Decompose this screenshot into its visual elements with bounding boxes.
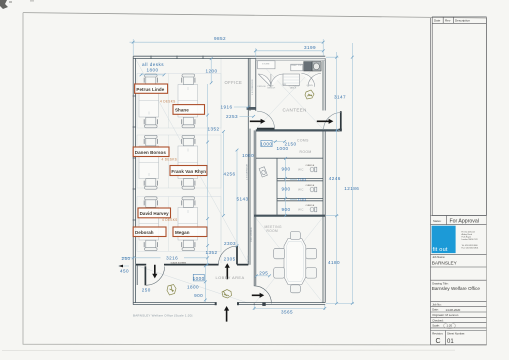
fit out logo [432, 226, 456, 253]
lobby door arc [219, 246, 238, 265]
dim 3199 canteen [254, 45, 325, 58]
svg-text:12186: 12186 [344, 186, 359, 191]
svg-text:Revision:: Revision: [432, 331, 443, 335]
svg-text:CUBICLE: CUBICLE [306, 205, 315, 207]
lobby vertical dim line [204, 266, 206, 303]
svg-text:WC: WC [298, 168, 304, 172]
kitchen counter band [256, 58, 325, 89]
svg-text:David Harvey: David Harvey [140, 211, 170, 216]
svg-text:LOBBY AREA: LOBBY AREA [216, 275, 245, 280]
svg-text:Drawing Title:: Drawing Title: [432, 281, 449, 285]
svg-text:Date:: Date: [432, 308, 439, 312]
cubicle partition left wall [276, 158, 278, 216]
svg-text:4 DESKS: 4 DESKS [162, 158, 178, 162]
glass screen door arc [146, 267, 165, 286]
dim 1200 [205, 57, 217, 84]
svg-text:295: 295 [259, 270, 268, 275]
WC block bottom wall [254, 215, 325, 217]
desk cluster 2 [139, 146, 198, 179]
name label Danen Borsos [133, 147, 169, 157]
svg-text:1800: 1800 [187, 284, 199, 289]
svg-text:4180: 4180 [328, 260, 340, 265]
window ticks on left wall [133, 96, 136, 220]
info rows [431, 301, 487, 328]
svg-text:Job No:: Job No: [432, 302, 442, 306]
svg-text:4 DESKS: 4 DESKS [160, 100, 176, 104]
svg-text:Originator:: Originator: [432, 313, 445, 317]
svg-text:SCREEN: SCREEN [248, 254, 250, 264]
svg-text:Megan: Megan [175, 230, 190, 235]
svg-text:1200: 1200 [205, 68, 217, 73]
svg-text:1352: 1352 [205, 250, 217, 255]
office desk row zone lines [137, 58, 221, 263]
svg-text:GLASS SCREEN: GLASS SCREEN [171, 261, 187, 264]
glass screen wall [136, 264, 248, 266]
name label Frank Van Rhyn [170, 166, 207, 176]
svg-text:900: 900 [194, 293, 203, 298]
svg-text:Fax: 020 8453 0801: Fax: 020 8453 0801 [462, 247, 479, 249]
svg-text:1000: 1000 [193, 276, 205, 281]
glass screen door leaf [144, 266, 146, 285]
svg-text:9852: 9852 [214, 36, 226, 41]
svg-text:fit out: fit out [433, 247, 448, 253]
bottom wall (entrance gap 216.5-237) [133, 303, 325, 305]
meeting room door leaf+arc [254, 286, 272, 304]
overall right dim 12186 [344, 43, 359, 305]
svg-text:WC: WC [298, 188, 304, 192]
svg-text:ROOM: ROOM [300, 150, 312, 154]
revision table [432, 17, 486, 216]
basin doodle left of cubicles [259, 167, 267, 177]
svg-text:1.0 CORRIDOR: 1.0 CORRIDOR [252, 79, 254, 95]
svg-text:14-08-2020: 14-08-2020 [446, 308, 461, 312]
drawing title section [431, 279, 487, 281]
svg-text:Shane: Shane [175, 108, 189, 113]
svg-text:Deborah: Deborah [135, 230, 154, 235]
svg-text:FRIDGE: FRIDGE [258, 86, 267, 88]
svg-text:ROOM: ROOM [267, 229, 279, 233]
canteen right wall [323, 58, 325, 110]
svg-text:BARNSLEY Welfare Office [Scale: BARNSLEY Welfare Office [Scale 1:20] [133, 314, 193, 318]
svg-text:1800: 1800 [146, 68, 158, 73]
job name row [431, 253, 487, 255]
svg-text:1352: 1352 [207, 126, 219, 131]
svg-text:100: 100 [297, 197, 306, 202]
corridor top cap wall [247, 107, 256, 110]
canteen left wall [255, 58, 257, 111]
cubicle divider 2 [277, 198, 323, 200]
WC labels and toilets [298, 165, 317, 172]
svg-text:C: C [436, 338, 441, 345]
scan corner artifact [0, 0, 34, 9]
dim 3216 [132, 256, 209, 261]
svg-text:1000: 1000 [260, 142, 272, 147]
svg-text:L.G CORRIDOR: L.G CORRIDOR [247, 164, 249, 180]
logo address [462, 230, 479, 249]
cubicle divider 1 [277, 178, 323, 180]
svg-text:CUBICLE: CUBICLE [306, 185, 315, 187]
svg-text:2305: 2305 [224, 257, 236, 262]
svg-text:3147: 3147 [334, 95, 346, 100]
svg-text:900: 900 [281, 187, 290, 192]
revision / sheet number [431, 331, 487, 345]
cooker/sink dark unit [304, 62, 312, 71]
svg-text:4 DESKS: 4 DESKS [162, 218, 178, 222]
svg-text:100: 100 [297, 177, 306, 182]
right wall WC block + meeting room [323, 130, 325, 302]
canteen right door [340, 111, 342, 130]
svg-text:Sheet Number:: Sheet Number: [447, 331, 465, 335]
svg-text:OVEN: OVEN [307, 85, 314, 87]
svg-text:London NW10 7XX: London NW10 7XX [462, 239, 479, 241]
shelving steps [283, 74, 300, 86]
window mullion ticks on top wall [151, 56, 203, 59]
svg-text:1060 SCREEN: 1060 SCREEN [251, 227, 253, 242]
dim 1916 [220, 105, 249, 110]
WC vertical dim line [285, 158, 287, 215]
desk cluster 3 [139, 208, 198, 241]
svg-text:Status:: Status: [433, 219, 442, 223]
svg-text:1000: 1000 [276, 146, 288, 151]
svg-text:CANTEEN: CANTEEN [283, 108, 307, 113]
name label Petrus Linde [135, 84, 168, 93]
svg-text:4256: 4256 [223, 171, 235, 176]
svg-text:01: 01 [447, 339, 454, 345]
svg-text:Job Name:: Job Name: [432, 255, 445, 259]
svg-text:BIN: BIN [283, 84, 287, 86]
svg-text:Frank Van Rhyn: Frank Van Rhyn [171, 169, 206, 174]
svg-text:Scale:: Scale: [432, 324, 440, 328]
office plant doodle [167, 285, 176, 296]
cubicle top line [256, 157, 323, 159]
svg-text:900: 900 [281, 207, 290, 212]
canteen plant doodle [305, 90, 314, 99]
svg-text:2303: 2303 [224, 241, 236, 246]
svg-text:BARNSLEY: BARNSLEY [432, 260, 458, 265]
svg-text:5143: 5143 [236, 196, 248, 201]
short screen return line [136, 266, 138, 285]
svg-text:Checked:: Checked: [432, 318, 444, 322]
entrance up arrow (outside) [224, 306, 229, 322]
meeting table [284, 239, 306, 285]
svg-text:CUBICLE: CUBICLE [306, 165, 315, 167]
lobby up arrow [225, 263, 230, 279]
lobby door leaf (office door) [236, 246, 238, 264]
svg-text:TABLE: TABLE [290, 87, 297, 90]
dim 2253 [226, 114, 255, 119]
name label Deborah [133, 227, 166, 237]
svg-text:3199: 3199 [304, 45, 316, 50]
dim 295 meeting [255, 270, 271, 277]
status row [431, 216, 487, 225]
WC/meeting left wall [254, 130, 256, 304]
right dim chain 3147/4246/4180 [326, 52, 354, 305]
svg-text:Danen Borsos: Danen Borsos [135, 150, 167, 155]
svg-text:WC: WC [298, 208, 304, 212]
title block outline [430, 18, 432, 345]
svg-text:OFFICE: OFFICE [225, 80, 243, 85]
faint construction diagonals [135, 58, 323, 303]
office right wall [248, 58, 250, 264]
fridge cabinet door arcs [258, 74, 271, 87]
office desks: 3 clusters of 4 desks [139, 74, 198, 251]
svg-text:all desks: all desks [142, 62, 164, 67]
svg-text:M Lennon: M Lennon [446, 313, 459, 317]
prep top units [291, 64, 303, 71]
oven cabinet arcs [301, 74, 321, 87]
dim 5143 [236, 149, 249, 248]
svg-text:COMS: COMS [297, 138, 309, 142]
svg-text:3565: 3565 [281, 309, 293, 314]
canteen left door arrow [250, 119, 266, 124]
name label David Harvey [138, 208, 171, 218]
svg-text:PREP TOP: PREP TOP [291, 65, 302, 67]
scan streak artifact [2, 349, 455, 351]
svg-text:STORE: STORE [262, 64, 270, 66]
dim 9852 top [130, 36, 325, 55]
entrance jamb marks [215, 302, 217, 305]
svg-text:4246: 4246 [329, 176, 341, 181]
name label Megan [173, 227, 207, 237]
svg-text:250: 250 [142, 287, 151, 292]
dim 450 [119, 265, 130, 274]
meeting chairs [274, 232, 317, 293]
dim 4256 [222, 130, 235, 217]
store cupboard [258, 61, 275, 69]
dim 3565 bottom [253, 305, 326, 314]
svg-text:1060: 1060 [242, 153, 254, 158]
down arrow at glass screen door [152, 265, 157, 279]
name label Shane [173, 105, 205, 115]
svg-text:3216: 3216 [166, 256, 178, 261]
dim 1000 boxed (lobby) [193, 274, 205, 281]
svg-text:1:20: 1:20 [447, 324, 453, 328]
svg-text:900: 900 [281, 167, 290, 172]
meeting room door arrow [252, 293, 264, 298]
office vertical dim chain [207, 84, 209, 264]
dim 1000 boxed (coms) [260, 140, 272, 146]
svg-text:Description: Description [455, 19, 470, 23]
top wall [133, 56, 325, 58]
desk cluster 1 [139, 85, 198, 118]
svg-text:Barnsley Welfare Office: Barnsley Welfare Office [432, 286, 481, 291]
dim 250 a [121, 256, 133, 261]
svg-text:450: 450 [120, 268, 129, 273]
svg-text:2253: 2253 [226, 114, 238, 119]
svg-text:BENCH: BENCH [268, 88, 276, 90]
coms room top wall [256, 129, 339, 131]
svg-text:250: 250 [121, 256, 130, 261]
lobby plant doodle [222, 290, 232, 299]
canteen right door arrow [317, 119, 334, 124]
svg-text:1916: 1916 [220, 105, 232, 110]
left wall [133, 56, 135, 304]
svg-text:For Approval: For Approval [450, 219, 479, 225]
canteen left door [257, 128, 275, 130]
svg-text:Petrus Linde: Petrus Linde [136, 87, 164, 92]
svg-text:Date: Date [434, 19, 441, 23]
svg-text:Rev: Rev [445, 19, 451, 23]
